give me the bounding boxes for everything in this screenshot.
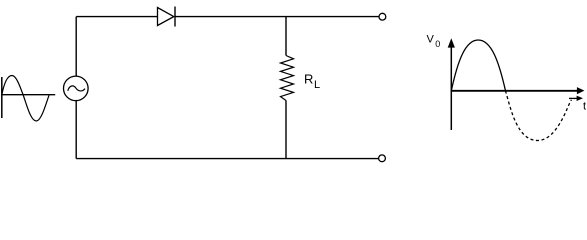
output waveform negative half (dashed)	[506, 91, 572, 141]
diode cathode bar	[174, 7, 176, 27]
input waveform horizontal axis	[1, 94, 55, 96]
AC source circle	[64, 76, 89, 101]
svg-text:L: L	[314, 79, 320, 91]
AC source sine symbol	[68, 86, 85, 91]
wire top-right (diode cathode to top output terminal)	[175, 16, 379, 18]
input waveform sine curve	[2, 76, 49, 122]
wire resistor branch upper (junction to resistor)	[285, 17, 287, 56]
svg-text:V: V	[427, 34, 435, 46]
output waveform end arrowhead	[577, 96, 583, 101]
output terminal bottom	[379, 155, 386, 162]
output waveform positive half (solid)	[451, 40, 505, 91]
output graph horizontal axis arrowhead	[577, 87, 585, 94]
output graph horizontal axis	[451, 90, 579, 92]
output terminal top	[379, 13, 386, 20]
wire bottom	[76, 158, 379, 160]
resistor RL zigzag	[281, 56, 294, 101]
wire left vertical lower (AC source to bottom wire)	[75, 101, 77, 159]
output graph vertical axis arrowhead	[448, 38, 455, 47]
wire top-left (source to diode anode)	[76, 16, 157, 18]
svg-text:0: 0	[435, 39, 440, 49]
svg-text:t: t	[583, 101, 586, 113]
diode D (triangle)	[158, 8, 174, 26]
output graph vertical axis	[450, 44, 452, 130]
svg-text:R: R	[304, 71, 313, 86]
output waveform end lead-in line	[569, 97, 578, 99]
wire resistor branch lower (resistor to bottom wire)	[285, 101, 287, 159]
wire left vertical upper (top wire to AC source)	[75, 17, 77, 77]
input waveform vertical axis	[1, 77, 3, 118]
